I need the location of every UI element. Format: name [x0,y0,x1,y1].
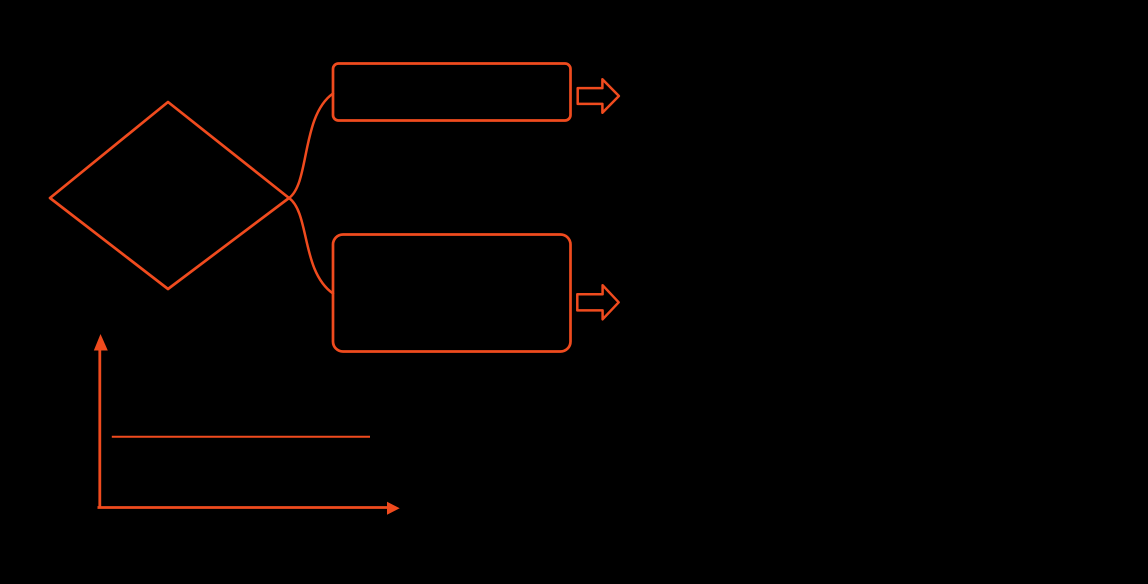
graph level line [112,436,370,438]
connector: diamond to box 1 (upper S-curve) [289,94,333,199]
block arrow 2 (outline arrow right of box 2) [577,285,618,319]
decision diamond [50,102,289,289]
graph x-axis [98,506,389,509]
block arrow 1 (outline arrow right of box 1) [578,79,619,113]
graph y-axis [98,348,101,509]
connector: diamond to box 2 (lower S-curve) [289,198,333,294]
graph y-axis arrowhead [94,334,108,351]
graph x-axis arrowhead [387,502,400,515]
process box 1 (top rounded rectangle) [333,64,571,121]
process box 2 (bottom rounded rectangle) [333,235,571,352]
